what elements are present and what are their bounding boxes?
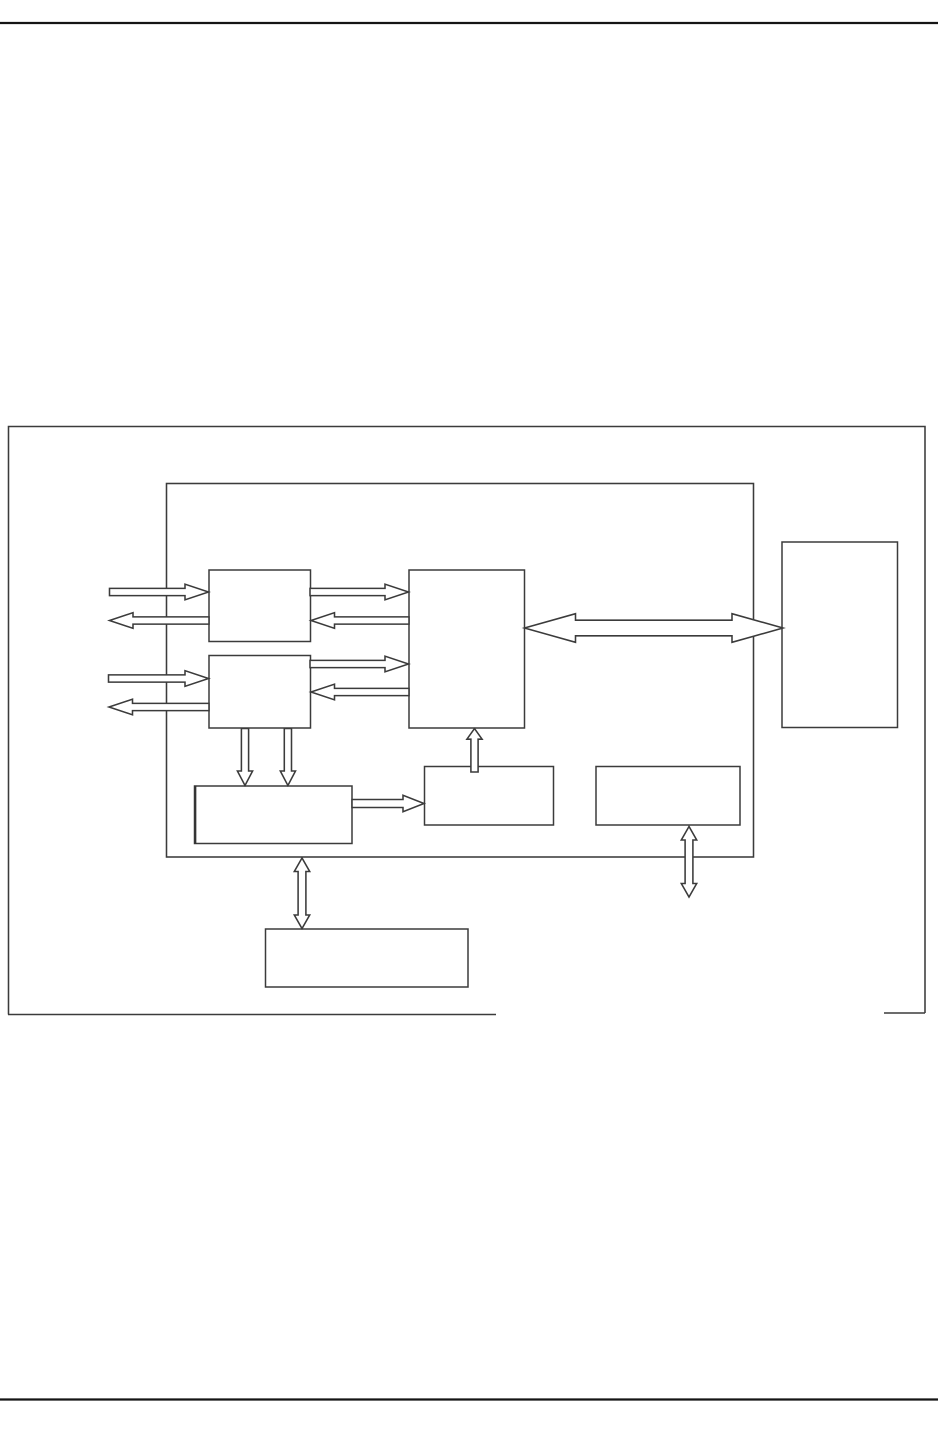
arrow A2: output from B1 (left-pointing) — [110, 613, 210, 629]
arrow A10: B2 down to B3 (second down arrow) — [280, 729, 295, 786]
bottom footer rule — [0, 1398, 938, 1400]
block B5 (bottom-right box inside frame) — [596, 767, 740, 826]
outer figure frame (bottom edge partially erased) — [9, 427, 926, 1015]
arrow A15: bidirectional B5-to-outside vertical arrow — [681, 827, 696, 898]
arrow A7: B2 to U1 (right-pointing) — [310, 656, 409, 672]
arrow A14: bidirectional frame-to-B6 vertical arrow — [294, 858, 309, 929]
arrow A11: B4 up into U1 — [467, 729, 482, 772]
block U2 (tall right box outside inner frame) — [782, 542, 898, 728]
arrow A8: U1 to B2 (left-pointing) — [311, 684, 409, 700]
arrow A4: U1 to B1 (left-pointing) — [311, 613, 409, 629]
block B3 (wide lower-left box) — [195, 786, 353, 844]
arrow A1: input into B1 (right-pointing) — [110, 584, 209, 600]
arrow A13: wide bidirectional bus U1 to U2 — [525, 614, 784, 643]
block U1 (central large box) — [409, 570, 525, 728]
inner board frame — [167, 484, 754, 858]
block B4 (bottom-middle box inside frame) — [425, 767, 554, 826]
top header rule — [0, 22, 938, 24]
arrow A12: B3 to B4 (right-pointing) — [352, 795, 424, 811]
arrow A6: output from B2 (left-pointing) — [109, 699, 209, 715]
block B6 (box below frame) — [266, 929, 469, 987]
block B2 (second small box) — [209, 656, 311, 729]
block B3 thick left edge — [194, 786, 196, 845]
arrow A5: input into B2 (right-pointing) — [109, 671, 209, 687]
arrow A3: B1 to U1 (right-pointing) — [310, 584, 409, 600]
arrow A9: B2 down to B3 (first down arrow) — [237, 729, 252, 786]
block B1 (top-left small box) — [209, 570, 311, 642]
